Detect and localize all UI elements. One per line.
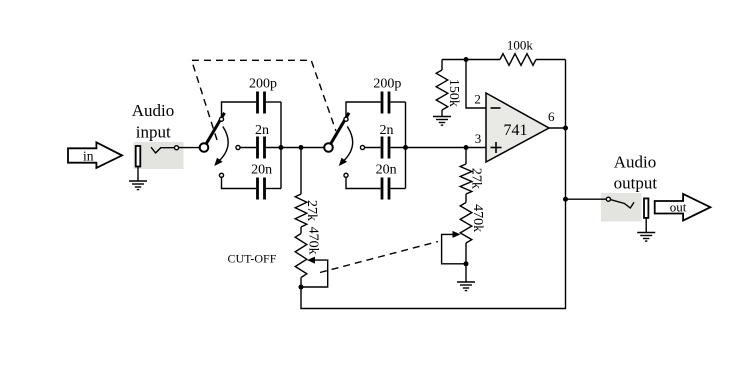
wire C6 to right rail [390,188,405,190]
wire C4 to right rail [390,101,405,103]
svg-text:CUT-OFF: CUT-OFF [228,251,277,265]
wire S2 bottom contact to C6 [346,177,381,188]
resistor R2 27k [460,148,472,203]
svg-text:20n: 20n [251,163,272,178]
junction node A [279,145,284,150]
svg-text:output: output [614,173,658,192]
resistor R1 27k [295,148,307,234]
svg-text:470k: 470k [470,204,485,232]
dashed gang link pots [320,242,438,273]
junction node F [464,261,469,266]
svg-text:in: in [83,148,94,163]
svg-text:27k: 27k [304,200,319,221]
wire 150k to feedback node [442,59,500,61]
wire output rail and bottom feedback return [301,60,566,309]
ground (input jack) [129,167,147,190]
dashed gang link switches [192,60,336,140]
out arrow [655,194,711,221]
svg-text:470k: 470k [306,227,321,255]
capacitor C6 20n [382,178,389,200]
potentiometer VR1 470k [295,234,328,288]
junction node C [403,145,408,150]
ground (output jack) [637,218,655,241]
junction node D [464,145,469,150]
capacitor C4 200p [382,92,389,114]
svg-text:200p: 200p [373,77,401,92]
rotary switch S2 [324,113,364,178]
in arrow [68,142,122,168]
wire S2 mid contact to C5 [365,147,381,149]
svg-text:Audio: Audio [132,101,175,120]
svg-text:3: 3 [475,131,482,146]
junction node J [563,197,568,202]
wire jack to switch S1 [179,147,200,149]
junction node H [563,126,568,131]
ground (R3) [433,117,451,126]
wire 100k to output [536,59,566,61]
wire C3 to right rail [266,188,281,190]
capacitor C5 2n [382,137,389,159]
rotary switch S1 [200,113,240,178]
wire C1 to right rail [266,101,281,103]
wire node G to op-amp pin 2 [466,60,486,109]
svg-text:27k: 27k [469,168,484,189]
label Audio input [132,101,175,141]
label Audio output [614,152,658,192]
junction node B [299,145,304,150]
svg-text:6: 6 [548,109,555,124]
wire op-amp output pin 6 [549,127,566,129]
ground (VR2) [457,264,475,291]
resistor R4 100k [500,54,536,66]
svg-text:2n: 2n [255,123,269,138]
svg-text:input: input [136,122,171,141]
junction node E [299,285,304,290]
svg-text:741: 741 [504,122,528,139]
resistor R3 150k [436,60,448,117]
svg-text:20n: 20n [376,163,397,178]
wire bank2 right rail [405,102,407,189]
input jack shaded box [134,142,184,169]
svg-text:150k: 150k [446,79,461,107]
wire bank1 right rail [280,102,282,189]
svg-text:100k: 100k [507,37,534,52]
wire node J to output jack [566,198,607,200]
op-amp U1 741 [486,93,549,162]
svg-text:Audio: Audio [614,152,657,171]
svg-text:200p: 200p [249,77,277,92]
wire S1 bottom contact to C3 [222,177,257,188]
svg-text:2: 2 [474,92,481,107]
capacitor C1 200p [258,92,265,114]
wire S2 top contact to cap bank 2 [346,102,381,117]
capacitor C2 2n [258,137,265,159]
wire main line bank1 to switch S2 [266,147,324,149]
junction node G [464,57,469,62]
wire S1 top contact to cap bank 1 [222,102,257,117]
jack J1 audio input [136,146,179,167]
capacitor C3 20n [258,178,265,200]
output jack shaded box [601,193,642,222]
svg-text:out: out [670,200,687,215]
svg-text:2n: 2n [380,123,394,138]
wire S1 mid contact to C2 [240,147,256,149]
potentiometer VR2 470k [442,203,472,264]
jack J2 audio output [606,197,648,218]
wire main line bank2 to op-amp pin 3 [390,147,486,149]
